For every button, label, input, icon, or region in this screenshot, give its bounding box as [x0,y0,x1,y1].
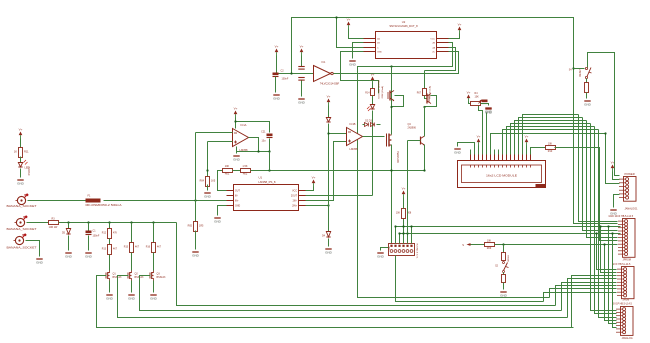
diode D2 [365,123,369,127]
junction [604,132,606,134]
svg-text:R07: R07 [417,93,422,95]
supply V+ U2 left [347,18,351,29]
svg-text:JPGM: JPGM [623,299,630,302]
svg-text:10K: 10K [396,213,401,215]
svg-text:GND: GND [454,151,462,155]
ground [150,295,158,301]
ground [17,180,25,186]
wire U2 pin2 to ground [353,43,364,59]
IC1 power pin plates lower [298,78,304,81]
resistor R09 10K [485,243,495,247]
capacitor C3 [482,100,488,104]
pin header JP1 DIP [389,244,415,256]
resistor R05 1R5 5W [194,222,198,232]
svg-text:GND: GND [349,63,357,67]
wire U2 right pin2 bracket long [358,43,550,298]
wire [403,198,405,209]
svg-text:R15: R15 [124,247,129,249]
supply V+ U2 right [458,23,462,34]
wire jp5 pin6 from bus2 [613,234,617,328]
svg-text:V+: V+ [611,161,615,165]
svg-text:47K: 47K [113,233,118,235]
banana socket J2 [15,216,28,227]
wire U2 pin4 loop [341,52,379,94]
junction [502,243,504,245]
svg-text:BSS123: BSS123 [157,276,166,279]
junction [599,225,601,227]
wire feedback loop top [236,122,270,133]
junction [67,221,69,223]
wire [372,83,374,89]
svg-text:1K5: 1K5 [211,180,216,183]
wire mode net [495,244,617,246]
wire jp3 pin6 from arc [587,121,618,238]
svg-text:100nF: 100nF [282,78,289,81]
transistor Q4 2N3906 [421,136,425,145]
transistor Q2 BSS123 [128,271,132,281]
resistor R15 [130,243,134,253]
svg-text:4K7: 4K7 [157,247,162,249]
svg-text:IN-: IN- [235,196,238,198]
wire diode pair [363,124,365,126]
wire Q2 gate net [118,276,568,318]
svg-text:GND: GND [233,158,241,162]
ground [273,95,281,101]
wire pin5 net up to Q4 base [407,141,409,234]
svg-text:U2: U2 [402,20,406,24]
svg-text:V+: V+ [477,135,481,139]
svg-text:1K: 1K [14,150,17,154]
wire [28,200,86,202]
wire [449,34,460,39]
potentiometer R4 10K [471,102,481,106]
junction T1 branch top [390,65,392,67]
wire header pin 4 net to R08 [403,218,405,244]
svg-text:GND: GND [377,255,385,259]
ground [128,295,136,301]
ground [325,249,333,255]
wire [503,245,505,253]
diode D1 [326,118,330,123]
resistor R3 10R 1W [49,221,59,225]
junction [206,169,208,171]
resistor R01 10K [223,169,233,173]
wire [301,81,303,97]
supply V+ R08 [402,187,406,198]
svg-text:2C: 2C [432,52,435,54]
wire [586,79,588,83]
svg-text:R04: R04 [200,180,205,183]
wire cap tap [269,152,271,171]
supply V+ lcd backlight [525,135,529,146]
wire input+ from shunt node [195,133,197,201]
supply V+ C2 [275,45,279,56]
wire jp4 pin7 riser [550,289,617,298]
svg-text:GND: GND [377,52,382,54]
wire M1 source down to header [391,145,393,244]
wire jp4 pin4 riser [568,279,617,318]
wire header GND [381,248,389,251]
wire [301,56,303,67]
resistor R12 [108,229,112,239]
lcd bus arcs [523,115,579,155]
svg-text:10K: 10K [548,142,553,145]
resistor R17 [502,253,506,261]
svg-text:V+: V+ [402,187,406,191]
wire IC1B input+ [329,133,347,135]
svg-text:2OUT: 2OUT [291,196,298,198]
lcd module box [458,161,546,188]
ground [500,292,508,298]
svg-text:GND: GND [204,195,212,199]
wire jp4 pin1 from bus2 [597,234,617,270]
svg-text:V+: V+ [234,107,238,111]
svg-text:2IN-: 2IN- [293,201,298,203]
connector JP5 JANALOG [616,307,633,336]
wire inverter input [279,73,314,75]
wire U1 2IN- to IC1B [306,142,347,201]
wire [153,253,155,271]
svg-text:DIP: DIP [389,245,391,249]
junction [108,221,110,223]
svg-text:GND: GND [106,297,114,301]
junction [402,232,404,234]
ground [204,193,212,199]
wire jp5 pin3 from arc [599,130,617,318]
wire lcd pin2 to ground [458,143,475,155]
junction [290,72,292,74]
fuse F1 MF-RSMF050-2 500mA [86,199,101,203]
wire Q4 base [408,140,421,142]
wire [68,223,70,229]
transistor Q1 BSS123 [106,271,110,281]
resistor R10 [546,146,556,150]
svg-text:R16: R16 [146,247,151,249]
svg-text:POWER: POWER [625,172,635,176]
junction reset tap [572,67,574,69]
zener diode D5 [66,229,70,235]
wire jp4 pin6 riser [556,286,617,306]
ground lcd [454,149,462,155]
wire [131,223,133,243]
svg-text:1R5: 1R5 [199,225,204,228]
svg-text:GND: GND [273,97,281,101]
svg-text:R12: R12 [102,233,107,235]
transistor T2 [427,94,431,104]
svg-text:IN GND 4 3 2 1: IN GND 4 3 2 1 [415,244,417,260]
LED D6 indicator [370,105,374,110]
svg-text:R01: R01 [225,173,230,176]
wire jp4 pin2 from bus1 [601,227,617,273]
svg-text:R02: R02 [243,173,248,176]
lcd pins [471,155,531,168]
wire lcd pin7 stub [494,150,496,155]
svg-text:V+: V+ [275,45,279,49]
wire [109,223,111,229]
wire jp4 pin5 riser [562,283,617,311]
wire Q4 collector [424,136,426,137]
svg-text:10K: 10K [225,165,230,168]
junction [423,169,425,171]
svg-text:SN74LVC2G66_DCT_8: SN74LVC2G66_DCT_8 [389,24,418,28]
wire [613,172,620,180]
resistor R13 [108,245,112,255]
wire [207,185,209,191]
svg-text:10R 1W: 10R 1W [49,226,58,229]
svg-text:GND: GND [298,101,306,105]
wire [131,281,133,293]
wire from U1 OUT [218,171,227,191]
svg-text:POWER: POWER [27,167,30,176]
svg-text:GND: GND [85,255,93,259]
junction [410,225,412,227]
wire Q4 emitter [424,145,426,171]
wire [20,157,22,163]
wire jp5 pin4 from mode node [605,245,617,321]
svg-text:R09: R09 [487,247,492,250]
wire U2 pin3 from top net [337,18,364,48]
wire bus OUT [396,226,621,228]
lcd tag [536,184,546,187]
svg-text:V+: V+ [19,128,23,132]
supply V+ IC1B [327,95,331,106]
svg-text:LM358: LM358 [350,147,358,151]
svg-text:GND: GND [584,103,592,107]
svg-text:16x2 LCD MODULE: 16x2 LCD MODULE [486,174,517,178]
svg-text:V+: V+ [347,18,351,22]
svg-text:V+: V+ [312,176,316,180]
svg-text:R10: R10 [548,150,553,153]
wire [26,241,40,257]
op-amp IC1A LM358 [233,129,249,147]
svg-text:JANALOG: JANALOG [622,337,633,340]
resistor R04 1.5K [206,177,210,187]
ground U2 [349,61,357,67]
svg-text:10K: 10K [475,96,480,99]
wire [109,281,111,293]
wire IC1B input node vertical [328,134,330,232]
svg-text:IC1B: IC1B [350,122,356,126]
wire [195,201,197,222]
wire divider output [251,170,425,172]
op-amp IC1B LM358 [347,128,363,146]
junction [130,221,132,223]
svg-text:GND 10UF HB.5-L14.5: GND 10UF HB.5-L14.5 [609,215,634,218]
svg-text:100nF: 100nF [93,235,100,238]
wire header pin 2 net [395,227,397,244]
wire [68,236,70,251]
supply V+ R4 [467,91,471,102]
svg-text:S: S [462,243,464,247]
wire [153,281,155,293]
svg-text:10K: 10K [487,240,492,243]
svg-text:GND: GND [36,261,44,265]
junction [327,204,329,206]
wire [88,223,90,231]
ground [192,252,200,258]
wire [372,96,374,105]
svg-text:GND: GND [485,110,493,114]
svg-text:R11: R11 [24,150,29,154]
wire R07 branch top [424,71,426,89]
svg-text:BANANA_SOCKET: BANANA_SOCKET [7,246,37,250]
capacitor C21 10u [267,134,273,138]
ground [298,99,306,105]
wire IC1B output to M1 gate [363,136,385,138]
svg-text:IC1: IC1 [322,61,327,64]
svg-text:V+: V+ [458,23,462,27]
svg-text:GND: GND [500,294,508,298]
switch S4 RESET [585,67,591,78]
svg-text:GND: GND [65,255,73,259]
wire sense branch to bottom bus [177,223,556,306]
junction [257,150,259,152]
wire [328,106,330,118]
svg-text:GND: GND [325,251,333,255]
wire power header pin5 gnd [614,195,620,208]
switch S2 MODE [503,262,509,273]
svg-text:NO LOAD DEVICE: NO LOAD DEVICE [377,79,380,98]
svg-text:V+: V+ [467,91,471,95]
svg-text:JPROM: JPROM [623,258,631,261]
svg-text:U1: U1 [259,176,263,180]
ground IC1A [233,156,241,162]
wire lcd pin16 to R10 [531,148,546,155]
wire loop bottom [237,151,270,153]
wire T2 loop [425,96,437,107]
junction [406,232,408,234]
svg-text:2N3906: 2N3906 [408,127,417,130]
svg-text:2IN+: 2IN+ [292,206,298,208]
wire [503,273,505,275]
junction [607,225,609,227]
wire U1 VCC to V+ [306,187,314,191]
wire jp4 pin3 riser [572,276,617,328]
wire [27,222,49,224]
wire R10 net to header [555,148,618,241]
wire U2 right bracket to R07 [425,48,456,71]
wire [104,200,227,202]
junction [603,243,605,245]
wire [349,29,364,39]
wire [131,253,133,271]
wire [153,223,155,243]
wire shunt bus [59,222,177,224]
svg-text:SV.F HB.5-L14.5: SV.F HB.5-L14.5 [613,263,632,266]
IC1 power pin plates upper [298,67,304,70]
supply V+ IC1A [234,107,238,118]
wire jp5 pin5 from bus1 [609,227,617,324]
supply V+ U1 [312,176,316,187]
svg-text:GND: GND [150,297,158,301]
svg-text:JANALOG1: JANALOG1 [625,207,639,210]
diode D4 [326,232,330,238]
ground U1 [214,218,222,224]
supply V+ power LED branch [19,128,23,139]
svg-text:V+: V+ [525,135,529,139]
junction [87,221,89,223]
svg-text:10u: 10u [262,140,267,143]
wire [233,170,241,172]
supply V+ power header [611,161,615,172]
wire header pin 5 net [407,234,409,244]
wire jp5 pin2 from arc [595,127,617,314]
wire lcd contrast from pot [479,105,483,155]
junction [234,120,236,122]
wire header aux net [396,256,544,302]
wire input- down to divider [207,142,209,177]
wire [481,104,489,106]
junction [595,232,597,234]
wire reset tap to switch [574,68,585,70]
junction [390,106,392,108]
wire [235,118,237,122]
svg-text:GND: GND [128,297,136,301]
svg-text:MF-RSMF050-2 500mA: MF-RSMF050-2 500mA [86,203,122,207]
svg-text:BANANA_SOCKET: BANANA_SOCKET [7,227,37,231]
logic IC U2 SN74LVC2G66_DCT_8 [376,32,437,59]
wire [276,56,278,73]
wire U1 2OUT to no-load net [306,195,373,197]
wire [526,146,528,155]
junction [398,232,400,234]
wire [486,113,488,155]
wire T1 loop [392,96,404,107]
wire power header pin2 from widest arc [606,134,620,184]
wire Q3 gate net [140,276,562,311]
resistor R16 [152,243,156,253]
ground [65,253,73,259]
svg-text:C21: C21 [261,131,266,134]
svg-text:R13: R13 [102,249,107,251]
resistor R19 [585,83,589,93]
wire [586,93,588,99]
transistor Q3 BSS123 [150,271,154,281]
LED D7 POWER [18,163,22,168]
wire [20,169,22,178]
ground [85,253,93,259]
wire no-load net down [372,111,374,196]
wire [503,283,505,290]
wire [109,239,111,245]
junction [327,132,329,134]
ground [106,295,114,301]
junction [394,225,396,227]
wire [478,146,480,155]
wire [20,139,22,148]
junction [423,106,425,108]
svg-text:IC1A: IC1A [241,123,247,127]
wire bus IN [400,233,621,235]
ground power header [610,210,618,216]
wire jp3 pin8 mode net [617,244,618,246]
diode D3 [371,123,375,127]
svg-text:SV.1P HB.5-L14.5: SV.1P HB.5-L14.5 [613,302,633,305]
junction [152,221,154,223]
wire Q1 gate net [97,276,574,328]
junction [335,16,337,18]
svg-text:200K (10uA): 200K (10uA) [381,86,384,99]
svg-text:OUT: OUT [235,191,240,193]
wire inverter output [334,52,459,74]
wire U1 2IN+ node [306,205,329,207]
wire [88,236,90,251]
wire jp4 pin8 riser [544,293,617,302]
wire [275,77,277,93]
wire top net from inverter input [292,18,618,224]
wire lcd pin8 stub [498,150,500,155]
svg-text:VCC: VCC [292,191,297,193]
